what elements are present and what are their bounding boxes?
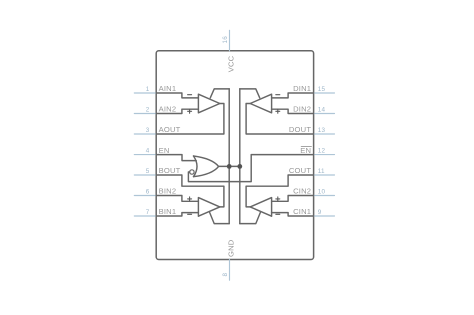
minus mark U1A input 1 bbox=[188, 94, 192, 96]
wire U1A output to AOUT bbox=[156, 104, 224, 135]
svg-text:DIN1: DIN1 bbox=[293, 84, 311, 93]
pin 12 (EN) wire bbox=[314, 154, 335, 156]
svg-text:15: 15 bbox=[318, 86, 326, 93]
plus mark U1A input 2 bbox=[188, 109, 192, 113]
pin 4 (EN) wire bbox=[134, 154, 156, 156]
receiver U1C triangle bbox=[250, 198, 271, 217]
svg-text:8: 8 bbox=[222, 273, 229, 277]
pin 11 (COUT) wire bbox=[314, 174, 335, 176]
wire DIN2 to U1D jog bbox=[272, 109, 314, 113]
svg-text:DIN2: DIN2 bbox=[293, 105, 311, 114]
svg-text:11: 11 bbox=[318, 168, 325, 175]
svg-text:GND: GND bbox=[227, 239, 236, 257]
svg-text:BIN2: BIN2 bbox=[159, 187, 177, 196]
pin 13 (DOUT) wire bbox=[314, 133, 335, 135]
wire U1C output to COUT bbox=[246, 175, 314, 207]
svg-text:BOUT: BOUT bbox=[159, 166, 181, 175]
wire DIN1 to U1D jog bbox=[272, 93, 314, 98]
pin 2 (AIN2) wire bbox=[134, 113, 156, 115]
svg-text:16: 16 bbox=[222, 36, 229, 44]
svg-text:COUT: COUT bbox=[289, 166, 311, 175]
svg-text:2: 2 bbox=[146, 106, 150, 113]
pin 10 (CIN2) wire bbox=[314, 195, 335, 197]
plus mark U1B input 2 bbox=[188, 197, 192, 201]
svg-text:AOUT: AOUT bbox=[159, 125, 181, 134]
wire U1D output to DOUT bbox=[246, 104, 314, 135]
svg-text:12: 12 bbox=[318, 147, 326, 154]
wire EN~ (pin 12) to gate inverted input bbox=[188, 155, 313, 182]
wire EN to gate input bbox=[156, 155, 196, 161]
receiver U1B triangle bbox=[198, 198, 219, 217]
wire gate output to enable buses bbox=[219, 165, 240, 167]
receiver U1D triangle bbox=[250, 94, 271, 113]
svg-text:3: 3 bbox=[146, 127, 150, 134]
enable bus line 2 bbox=[239, 89, 241, 224]
svg-text:1: 1 bbox=[146, 86, 150, 93]
svg-text:DOUT: DOUT bbox=[289, 125, 311, 134]
wire BIN2 to U1B jog bbox=[156, 196, 198, 202]
plus mark U1D input 2 bbox=[276, 109, 280, 113]
svg-text:6: 6 bbox=[146, 188, 150, 195]
pin 7 (BIN1) wire bbox=[134, 215, 156, 217]
inversion bubble on gate input bbox=[190, 170, 194, 174]
IC body outline U1 bbox=[156, 51, 313, 260]
U1D enable stub to bus bbox=[240, 89, 260, 98]
pin 16 (VCC) wire bbox=[229, 30, 231, 51]
enable gate U1E (OR with inverted input) bbox=[194, 156, 219, 177]
svg-text:EN: EN bbox=[300, 146, 311, 155]
pin 15 (DIN1) wire bbox=[314, 92, 335, 94]
enable bus line 1 bbox=[228, 89, 230, 224]
minus mark U1D input 1 bbox=[276, 94, 280, 96]
junction dot on bus 2 bbox=[237, 164, 242, 169]
svg-text:EN: EN bbox=[159, 146, 170, 155]
svg-text:10: 10 bbox=[318, 188, 326, 195]
pin 6 (BIN2) wire bbox=[134, 195, 156, 197]
svg-text:14: 14 bbox=[318, 106, 326, 113]
wire BIN1 to U1B jog bbox=[156, 213, 198, 216]
pin 8 (GND) wire bbox=[229, 260, 231, 281]
svg-text:7: 7 bbox=[146, 209, 150, 216]
wire AIN2 to U1A jog bbox=[156, 109, 198, 113]
wire U1B output to BOUT bbox=[156, 175, 224, 207]
svg-text:AIN2: AIN2 bbox=[159, 105, 177, 114]
svg-text:VCC: VCC bbox=[227, 55, 236, 72]
U1B enable stub to bus bbox=[210, 213, 230, 224]
wire CIN2 to U1C jog bbox=[272, 196, 314, 202]
plus mark U1C input 2 bbox=[276, 197, 280, 201]
svg-text:AIN1: AIN1 bbox=[159, 84, 177, 93]
wire CIN1 to U1C jog bbox=[272, 213, 314, 216]
U1A enable stub to bus bbox=[210, 89, 229, 98]
pin 5 (BOUT) wire bbox=[134, 174, 156, 176]
receiver U1A triangle bbox=[198, 94, 219, 113]
junction dot on bus 1 bbox=[227, 164, 232, 169]
pin name EN (active low, with overline) bbox=[300, 146, 311, 155]
svg-text:CIN1: CIN1 bbox=[293, 207, 311, 216]
svg-text:BIN1: BIN1 bbox=[159, 207, 177, 216]
pin 14 (DIN2) wire bbox=[314, 113, 335, 115]
pin 9 (CIN1) wire bbox=[314, 215, 335, 217]
svg-text:4: 4 bbox=[146, 147, 150, 154]
minus mark U1C input 1 bbox=[276, 213, 280, 215]
pin 3 (AOUT) wire bbox=[134, 133, 156, 135]
svg-text:5: 5 bbox=[146, 168, 150, 175]
svg-text:13: 13 bbox=[318, 127, 326, 134]
pin 1 (AIN1) wire bbox=[134, 92, 156, 94]
svg-text:9: 9 bbox=[318, 209, 322, 216]
svg-text:CIN2: CIN2 bbox=[293, 187, 311, 196]
minus mark U1B input 1 bbox=[188, 213, 192, 215]
U1C enable stub to bus bbox=[240, 213, 260, 224]
wire AIN1 to U1A + jog bbox=[156, 93, 198, 98]
